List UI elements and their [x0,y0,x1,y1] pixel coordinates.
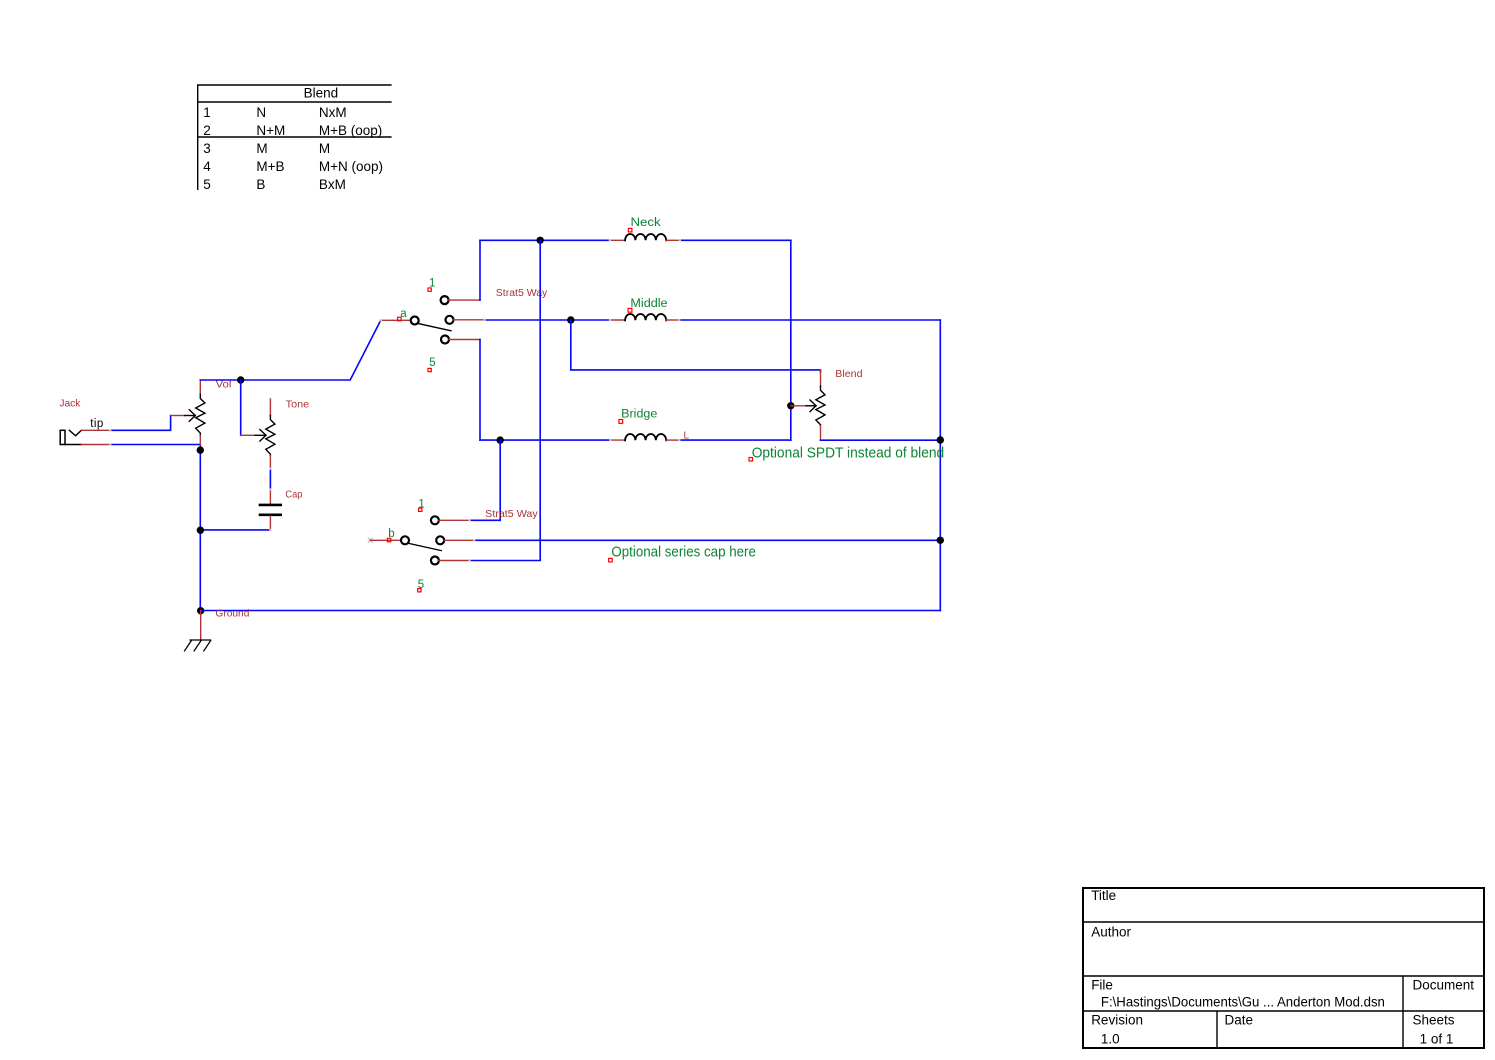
switch a pin 5 lead [449,339,480,341]
blend wiper arrow [806,400,816,412]
inductor Bridge coil [625,434,666,440]
switch a common contact [411,317,419,325]
switch a pin 5 marker square [428,368,431,371]
wire neck right [680,239,791,241]
svg-text:M+B (oop): M+B (oop) [319,123,382,138]
svg-text:B: B [256,177,265,192]
svg-text:Blend: Blend [304,85,339,100]
switch b blade [409,544,441,551]
svg-text:N: N [256,105,266,120]
table border left [197,85,199,190]
switch b pin 1 lead [439,519,470,521]
ground bus wire [201,610,941,612]
Bridge pin marker square [619,420,623,424]
switch b pin 5 lead [439,560,470,562]
wire end tick marks [109,239,681,561]
svg-text:5: 5 [203,177,211,192]
tone wiper lead [241,434,255,436]
potentiometer Vol top lead [199,380,201,394]
svg-text:NxM: NxM [319,105,347,120]
TITLE BLOCK [1083,888,1484,1048]
svg-text:M+B: M+B [256,159,284,174]
svg-text:Document: Document [1413,977,1475,992]
jack J1 tip contact [69,430,81,436]
switch a pin 1 contact [441,296,449,304]
jack tip lead [81,429,110,431]
wire neck junction down to switch b pin 5 [470,240,541,560]
node switch b middle junction [937,537,944,544]
inductor Middle coil [625,314,666,320]
svg-text:File: File [1091,977,1113,992]
wire cap bottom to left vertical [200,529,270,531]
svg-text:Ground: Ground [215,609,249,620]
wire tip to vol wiper [110,416,170,431]
node blend wiper junction [787,402,794,409]
svg-text:a: a [400,308,407,320]
table line under header [197,101,392,103]
node bridge junction [497,436,504,443]
svg-text:Jack: Jack [59,399,81,410]
inductor Middle left lead [610,319,625,321]
node cap junction [197,527,204,534]
jack sleeve lead [65,444,82,446]
switch b no-connect x [368,538,372,542]
title block line under Author [1083,975,1484,977]
wire switch a pin1 up [479,240,481,300]
wire neck left [480,239,610,241]
capacitor Cap top lead [269,489,271,504]
capacitor Cap bottom lead [269,516,271,530]
node vol bottom junction [197,446,204,453]
switch a pin marker square [398,317,402,321]
wire neck right down to bridge [790,240,792,440]
Neck pin marker square [628,228,632,232]
wire switch b middle to right vertical [474,539,940,541]
Optional series cap pin marker square [609,558,613,562]
wire left vertical to ground bus [199,445,201,611]
svg-text:BxM: BxM [319,177,346,192]
SELECTOR TABLE [197,85,392,192]
svg-text:5: 5 [429,357,435,369]
wire middle pickup to right vertical [679,319,940,321]
ground symbol [185,640,211,651]
wire bridge junction down to switch b pin 1 [470,440,501,520]
Middle pin marker square [628,308,632,312]
switch b common lead [370,539,401,541]
title block line under Title [1083,921,1484,923]
vol wiper arrow [185,410,196,422]
svg-text:Vol: Vol [216,379,232,390]
switch b pin marker square [387,538,391,542]
svg-text:M: M [319,141,330,156]
potentiometer Tone bottom lead [269,456,271,469]
SWITCH A (upper Strat 5 Way) [381,278,548,372]
svg-text:Tone: Tone [286,399,310,410]
inductor Middle right lead [666,319,679,321]
potentiometer Tone top lead [269,400,271,416]
title block line under File [1083,1010,1484,1012]
svg-text:tip: tip [90,418,103,430]
switch b common contact [401,536,409,544]
title block divider Date [1216,1011,1218,1048]
inductor Neck left lead [610,239,625,241]
inductor Neck coil [625,234,666,240]
wire bridge left [480,439,610,441]
svg-text:Revision: Revision [1091,1012,1143,1027]
svg-text:1 of 1: 1 of 1 [1420,1032,1454,1047]
switch a common lead [381,319,411,321]
svg-text:Middle: Middle [630,298,667,310]
wire switch a pin5 down [479,340,481,441]
svg-text:Title: Title [1091,888,1116,903]
blend wiper lead [791,405,806,407]
inductor Bridge left lead [610,439,625,441]
svg-text:Optional SPDT instead of blend: Optional SPDT instead of blend [752,444,945,461]
svg-text:3: 3 [203,141,211,156]
inductor Bridge right lead [666,439,679,441]
svg-text:Cap: Cap [285,490,302,501]
potentiometer Vol bottom lead [199,435,201,445]
wire vol top to tone wiper [240,380,242,435]
switch a pin 5 contact [441,336,449,344]
potentiometer Blend body [816,386,825,426]
potentiometer Blend bottom lead [820,426,822,441]
svg-text:Strat5 Way: Strat5 Way [485,509,538,520]
wire middle right vertical [939,320,941,611]
switch a middle lead [454,319,485,321]
switch b pin 1 marker square [419,508,422,511]
wire sleeve to vol bottom [110,444,200,446]
switch a blade [419,324,451,331]
switch b middle contact [436,536,444,544]
svg-text:1.0: 1.0 [1101,1032,1120,1047]
svg-text:M+N (oop): M+N (oop) [319,159,383,174]
svg-text:1: 1 [203,105,211,120]
svg-text:Date: Date [1225,1012,1254,1027]
switch b pin 1 contact [431,516,439,524]
svg-text:Bridge: Bridge [621,408,657,420]
switch b pin 5 marker square [418,589,421,592]
potentiometer Vol body [196,394,205,435]
svg-text:4: 4 [203,159,211,174]
svg-text:Author: Author [1091,924,1131,939]
wire middle junction to blend top [571,320,821,372]
SWITCH B (lower Strat 5 Way) [368,499,944,592]
wire tone bottom to cap [269,469,271,490]
switch b pin 5 contact [431,557,439,565]
node ground junction [197,607,204,614]
svg-text:F:\Hastings\Documents\Gu ... A: F:\Hastings\Documents\Gu ... Anderton Mo… [1101,995,1385,1010]
svg-text:N+M: N+M [256,123,285,138]
svg-text:Blend: Blend [835,369,862,380]
node vol top junction [237,376,244,383]
table line top [197,84,392,86]
node neck junction [537,237,544,244]
switch a middle contact [446,316,454,324]
title block divider Document [1402,976,1404,1048]
jack J1 sleeve barrel [60,430,65,444]
capacitor Cap plates [260,505,281,515]
svg-text:Neck: Neck [631,217,661,229]
node middle junction [567,316,574,323]
title block outer border [1083,888,1484,1048]
potentiometer Blend top lead [820,370,822,386]
wire switch a middle to middle pickup [485,319,610,321]
PICKUPS AND BLEND [470,217,945,610]
JACK / VOL / TONE / CAP / GROUND AREA [59,320,940,651]
svg-text:b: b [388,528,394,540]
wire blend bottom to right vertical [821,439,941,441]
switch a pin 1 lead [449,299,480,301]
svg-text:2: 2 [203,123,211,138]
potentiometer Tone body [266,415,275,455]
wire bridge right [679,439,791,441]
table line mid [197,136,392,138]
node blend bottom junction [937,436,944,443]
switch a pin 1 marker square [428,288,431,291]
svg-text:Sheets: Sheets [1413,1012,1455,1027]
switch b middle lead [444,539,474,541]
ground lead [200,611,202,640]
wire vol top to switch a [200,320,380,380]
svg-text:M: M [256,141,267,156]
Optional SPDT pin marker square [749,458,753,462]
vol wiper lead [171,415,185,417]
potentiometer Tone top no-connect tick [269,398,271,400]
tone wiper arrow [255,430,266,442]
svg-text:Optional series cap here: Optional series cap here [611,544,756,561]
inductor Neck right lead [666,239,680,241]
